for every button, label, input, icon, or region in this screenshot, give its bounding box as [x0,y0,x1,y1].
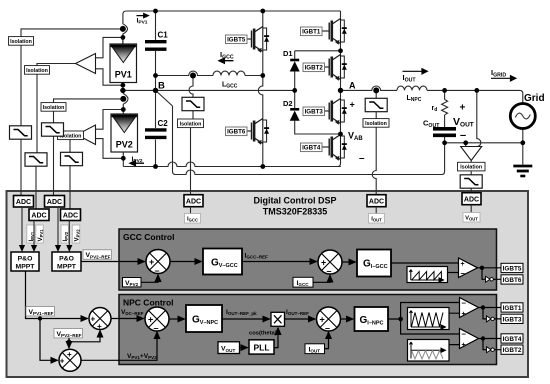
wire multiplier to NPC current sum with IOUT-REF label [285,318,316,320]
block GI-NPC [355,307,389,331]
comparator GCC [459,258,478,278]
wire IGCC into GCC current sum [313,275,330,282]
wire VPV1 chain down [36,74,38,153]
wire PV1 bottom [122,83,124,91]
ADC box IGCC [184,195,203,223]
wire IPV2 chain down [53,111,55,124]
svg-text:Isolation: Isolation [26,68,48,74]
svg-text:C2: C2 [158,119,169,128]
svg-text:A: A [349,81,356,91]
wire compB to IGBT4 tag [479,338,502,340]
gate tag IGBT5 [501,263,523,272]
label box VOUT (PLL input) [218,342,240,354]
svg-text:IPV2: IPV2 [62,231,69,241]
wire IPV1 riser with sensor bulge [123,11,128,44]
wire B line [123,89,295,91]
wire comparator to IGBT5 tag [478,267,502,269]
svg-text:Isolation: Isolation [365,121,387,127]
svg-text:cos(theta): cos(theta) [249,331,277,337]
svg-text:D1: D1 [283,49,293,58]
PV panel PV2 [111,114,138,152]
wire amp1 output to isolation [37,64,76,67]
wire VOUT+ sense down with bow over node line [477,90,481,146]
svg-text:Isolation: Isolation [460,165,482,171]
wire GI-GCC to comparator [391,262,459,264]
svg-text:Isolation: Isolation [180,121,202,127]
svg-text:P&O: P&O [18,256,33,263]
diode D2 [283,99,300,121]
wire sawtooth to comparator [448,272,459,274]
svg-text:+: + [321,258,326,268]
svg-text:+: + [320,315,325,325]
wire node A line with IOUT sensor bump [341,86,398,90]
label IGCC with arrow [219,50,234,63]
svg-text:IGBT4: IGBT4 [302,145,321,152]
wire C1 top [155,11,157,40]
carrier box triangle wave negative [408,340,450,362]
isolation box (IPV1) [9,37,34,46]
svg-text:–: – [460,130,466,142]
filter box IPV2 [42,123,64,136]
wire output line to grid [427,90,523,103]
wire LGCC to leg midpoint [245,75,263,77]
wires ADC to P&O with arrows [22,207,69,246]
isolation box (IGCC) [178,119,204,128]
multiplier X box [271,312,285,326]
wire amp1 inputs [96,37,123,57]
wire leg6 bottom [262,144,264,167]
adder circle sum refs [59,349,81,371]
wire VOUT chain [470,170,472,175]
wire VPV2 into GCC sum [141,275,158,283]
svg-text:IGBT1: IGBT1 [503,305,522,312]
summing junction NPC current [317,307,341,331]
wire IPV1 chain down [20,44,22,126]
wire GCC sum to GV-GCC [170,261,202,263]
wire C1 bottom to B [155,51,157,90]
summing junction GCC current [318,250,342,274]
wire IOUT sense down [375,90,377,99]
wire branch down to adder 7 [40,319,58,361]
svg-text:IGBT3: IGBT3 [305,109,324,116]
summing junction NPC voltage [145,307,169,331]
capacitor COUT [433,129,456,136]
svg-text:Isolation: Isolation [43,105,65,111]
svg-text:+: + [462,311,466,318]
svg-text:C1: C1 [158,31,169,40]
svg-text:+: + [461,261,465,268]
wire VPV2 chain down [69,140,71,152]
wire amp3 out [470,161,472,164]
wire P&O1 down to VPV1-REF node [26,271,88,319]
wire bottom rail with hops at 172.5 and 190.5 [123,162,340,167]
filter box IPV1 [10,126,32,139]
filter box IGCC [182,97,204,110]
wire amp3 inputs [465,143,467,147]
filter box VPV2 [61,152,83,165]
svg-text:IGBT1: IGBT1 [302,29,321,36]
wire top rail [127,10,341,12]
svg-text:IGBT4: IGBT4 [503,336,522,343]
wire compA to IGBT1 tag [479,307,502,309]
carrier box sawtooth [407,267,448,283]
wire adder6 to NPC sum with VDC-REF label [111,318,144,320]
filter box IOUT [365,98,387,111]
svg-text:IGBT6: IGBT6 [227,129,246,136]
wire D1 link [295,50,341,52]
svg-text:IGBT6: IGBT6 [503,277,522,284]
wire C2 top from B [155,90,157,128]
carrier box triangle wave positive [408,308,450,330]
label IPV1 with arrow [137,14,149,26]
transistor IGBT1 [322,19,347,45]
transistor IGBT4 [322,135,347,161]
inductor LNPC [397,86,427,90]
diode D1 [283,49,300,72]
label box VPV2 [123,278,142,288]
svg-text:ADC: ADC [47,199,62,206]
ADC box VOUT [462,193,481,222]
svg-text:–: – [154,323,159,333]
svg-text:–: – [462,299,467,308]
wire COUT bottom [444,137,446,143]
svg-text:ADC: ADC [369,199,384,206]
op-amp buffer A3 (VOUT sense) [461,147,482,161]
PV panel PV1 [110,44,137,83]
svg-text:–: – [461,269,466,278]
gate tag IGBT6 [501,275,523,284]
wire leg5 top [262,11,264,27]
wire P&O2 to GCC sum with VPV2-REF label [81,261,145,263]
svg-text:–: – [359,153,365,164]
svg-text:IGBT5: IGBT5 [227,37,246,44]
ADC box IPV2 [45,196,65,208]
svg-text:rd: rd [432,105,438,113]
label box IGCC [293,277,313,287]
label box VPV2-REF lower [54,329,83,339]
svg-text:–: – [325,323,330,333]
wire PLL to multiplier with cos(theta) label [274,328,278,348]
svg-text:NPC Control: NPC Control [123,298,174,308]
wire comparator to IGBT6 via inverter [482,268,501,280]
transistor IGBT5 [244,27,269,53]
svg-text:VPV1: VPV1 [37,229,44,242]
svg-text:GCC Control: GCC Control [123,232,174,242]
wire GI-NPC output to both comparators [388,303,460,335]
svg-text:+: + [462,342,466,349]
wire IPV2 sense to isolation [54,99,124,103]
label box IOUT [305,344,325,354]
svg-text:+: + [97,322,102,331]
ADC box VPV1 [29,209,49,221]
svg-text:ADC: ADC [16,199,31,206]
filter box VOUT [460,175,482,188]
svg-text:PLL: PLL [253,343,269,353]
wire GV-NPC to multiplier with IOUT-REF_pk label [222,318,270,320]
comparator NPC A [460,298,479,319]
svg-text:PV1: PV1 [115,70,132,80]
op-amp buffer A2 (PV2 voltage sense) [77,125,96,145]
svg-text:Isolation: Isolation [10,39,32,45]
wire rd top [444,90,446,99]
svg-text:–: – [155,266,160,276]
svg-text:IOUT: IOUT [371,217,382,223]
svg-text:TMS320F28335: TMS320F28335 [263,207,328,217]
wire adder7 to NPC sum bottom [81,332,157,360]
capacitor C1 [145,42,167,50]
transistor IGBT2 [322,55,347,81]
gate tag IGBT3 [501,314,523,323]
wire IGCC sense down with hop over B line [189,76,193,98]
isolation box (VPV1) [25,66,50,75]
DSP outer box [7,191,529,377]
P&O MPPT block 1 [11,252,39,271]
wire VOUT to PLL [240,347,248,349]
AC source Grid [510,93,544,129]
ADC box IPV1 [14,196,34,208]
svg-text:VOUT: VOUT [465,216,478,222]
wire amp2 inputs [96,110,124,130]
wire PV1 top tap [122,37,124,44]
svg-text:Digital Control DSP: Digital Control DSP [254,196,337,206]
svg-text:IGBT2: IGBT2 [305,65,324,72]
inductor LGCC [213,71,245,75]
svg-text:D2: D2 [283,99,293,108]
svg-text:IGBT2: IGBT2 [503,347,522,354]
svg-text:+: + [149,257,154,267]
isolation box (VOUT) [458,162,486,171]
svg-text:IGCC: IGCC [187,217,198,223]
label IPV2 with arrow [130,156,144,166]
ground [513,166,532,176]
wire compA to IGBT3 via inverter [483,308,501,319]
svg-text:IGBT5: IGBT5 [503,265,522,272]
ADC box VPV2 [61,209,81,221]
block GV-GCC [203,249,242,275]
svg-text:–: – [327,266,332,276]
wire compB to IGBT2 via inverter [483,339,501,350]
summing junction GCC voltage [146,250,170,274]
ADC box IOUT [367,195,386,223]
block PLL [249,340,274,354]
GCC Control box [119,229,497,290]
svg-text:–: – [462,330,467,339]
svg-text:IGBT3: IGBT3 [503,316,522,323]
isolation box (IPV2) [41,103,66,112]
wire grid bottom to ground [522,129,524,165]
svg-text:ADC: ADC [186,199,201,206]
svg-text:+: + [60,357,65,366]
svg-text:ADC: ADC [63,213,78,220]
label IGRID with arrow [491,68,516,81]
wire LGCC line from C-mid with sensor bump [156,71,214,75]
wire NPC leg top [340,11,342,19]
wire PV2 bottom to rail [122,152,124,167]
wire rd to COUT [444,115,446,127]
svg-text:+: + [91,315,96,324]
svg-text:VPV2: VPV2 [74,229,81,242]
svg-text:+: + [460,103,466,114]
op-amp buffer A1 (PV1 voltage sense) [76,54,96,74]
transistor IGBT6 [244,119,269,145]
wire IGBT4 to bottom rail [338,160,341,167]
gate tag IGBT2 [501,345,523,354]
transistor IGBT3 [322,99,347,125]
wire IGBT1-2 [340,44,342,55]
isolation box (VPV2) [58,131,84,140]
capacitor C2 [145,130,167,138]
wires from VPV2-REF to adders [69,331,100,342]
signal tags IPV1 VPV1 IPV2 VPV2 (vertical) [27,225,35,243]
svg-text:B: B [158,81,165,92]
resistor rd zigzag [442,100,448,115]
wire IOUT chain down with bow over line2 [372,127,376,195]
block GV-NPC [186,305,222,332]
svg-text:MPPT: MPPT [16,264,36,271]
svg-text:LGCC: LGCC [222,82,238,90]
wire IOUT into NPC current sum [325,332,329,349]
wire C2 bottom [155,140,157,167]
wire NPC sum to GV-NPC [169,318,185,320]
block GI-GCC [357,250,391,277]
label IOUT with arrow [403,69,428,84]
comparator NPC B [460,329,479,350]
adder circle VDC (VPV1-REF + VPV2-REF) [89,308,111,331]
svg-text:Grid: Grid [524,93,545,104]
svg-text:P&O: P&O [59,256,74,263]
svg-text:PV2: PV2 [116,140,133,150]
wire IGCC chain down with hops over rails [192,111,194,119]
wire IGBT3-4 [340,124,342,135]
wire GV-GCC to GCC current sum with IGCC-REF label [242,261,317,263]
wire D2 link [294,90,296,108]
NPC Control box [119,295,497,365]
svg-text:+: + [350,100,355,110]
svg-text:LNPC: LNPC [407,95,422,103]
wire leg5 bottom to mid with hop over B [258,52,263,119]
svg-text:MPPT: MPPT [57,264,77,271]
isolation box (IOUT) [363,119,389,128]
wire IGBT2-3 node A [340,80,342,99]
wire PV2 top tap [122,110,124,115]
inverter bubble GCC [486,276,494,282]
wire GCC current sum to GI-GCC [342,261,356,263]
wire VOUT- node line to grid bottom [445,142,523,144]
wires carriers to comparators [449,313,460,344]
svg-text:ADC: ADC [464,197,479,204]
wire IPV1 sense to isolation [21,29,123,37]
svg-text:+: + [67,350,72,359]
svg-text:+: + [148,315,153,325]
gate tag IGBT4 [501,334,523,343]
svg-text:ADC: ADC [31,213,46,220]
wire line2 B to VOUT- with bump over IGCC wire [173,106,445,175]
wire NPC current sum to GI-NPC [341,318,354,320]
P&O MPPT block 2 [52,252,81,271]
wire B diagonal [156,90,173,106]
gate tag IGBT1 [501,303,523,312]
wire PV2 riser from B with sensor bulge [123,90,128,109]
filter box VPV1 [25,153,47,166]
